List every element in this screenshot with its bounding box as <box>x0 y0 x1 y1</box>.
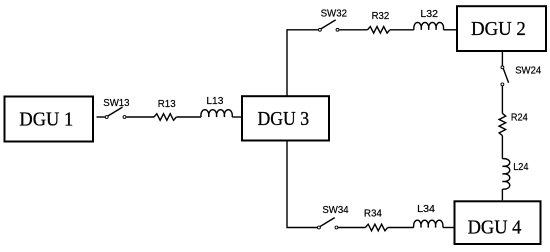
svg-text:DGU 2: DGU 2 <box>471 18 526 40</box>
svg-text:SW24: SW24 <box>515 66 541 77</box>
svg-text:SW13: SW13 <box>103 98 130 109</box>
svg-text:L34: L34 <box>417 204 435 215</box>
switch SW34 <box>317 205 349 229</box>
svg-text:R13: R13 <box>158 99 176 110</box>
wire SW34 to R34 <box>338 227 365 229</box>
svg-text:R34: R34 <box>364 208 382 219</box>
wire R32 to L32 <box>390 29 414 31</box>
wire DGU1 to SW13 <box>97 116 106 118</box>
wire L13 to DGU3 <box>232 116 241 118</box>
svg-text:DGU 1: DGU 1 <box>19 109 73 131</box>
svg-text:SW34: SW34 <box>322 205 349 216</box>
wire L34 to DGU4 <box>443 227 454 229</box>
svg-text:DGU 3: DGU 3 <box>258 108 310 130</box>
resistor R34 <box>364 208 388 231</box>
wire L24 to DGU4 <box>501 189 503 200</box>
wire DGU3 bottom to corner to SW34 <box>287 142 317 228</box>
wire R24 to L24 <box>501 136 503 159</box>
wire L32 to DGU2 <box>444 29 457 31</box>
svg-text:DGU 4: DGU 4 <box>468 216 522 238</box>
resistor R24 <box>499 113 528 136</box>
inductor L32 <box>414 9 444 30</box>
inductor L13 <box>201 96 232 117</box>
DGU 2 box U2 <box>457 6 546 51</box>
svg-text:R32: R32 <box>372 11 390 22</box>
switch SW13 <box>103 98 130 118</box>
DGU 4 box U4 <box>455 201 541 244</box>
svg-text:L24: L24 <box>513 162 529 173</box>
wire R13 to L13 <box>176 116 201 118</box>
DGU 3 box U3 <box>242 96 329 140</box>
wire DGU3 top to corner to SW32 <box>287 30 318 96</box>
inductor L24 <box>502 159 528 190</box>
resistor R13 <box>154 99 176 120</box>
svg-text:L32: L32 <box>420 9 438 20</box>
svg-text:L13: L13 <box>206 96 223 107</box>
resistor R32 <box>368 11 390 33</box>
svg-text:R24: R24 <box>511 113 528 124</box>
inductor L34 <box>414 204 443 227</box>
switch SW32 <box>318 8 347 31</box>
wire SW13 to R13 <box>126 116 154 118</box>
svg-text:SW32: SW32 <box>321 8 348 19</box>
wire SW32 to R32 <box>339 29 367 31</box>
wire R34 to L34 <box>388 227 414 229</box>
wire SW24 to R24 <box>501 86 503 113</box>
wire DGU2 bottom to SW24 <box>501 52 503 66</box>
DGU 1 box U1 <box>5 97 94 142</box>
switch SW24 <box>501 66 542 86</box>
